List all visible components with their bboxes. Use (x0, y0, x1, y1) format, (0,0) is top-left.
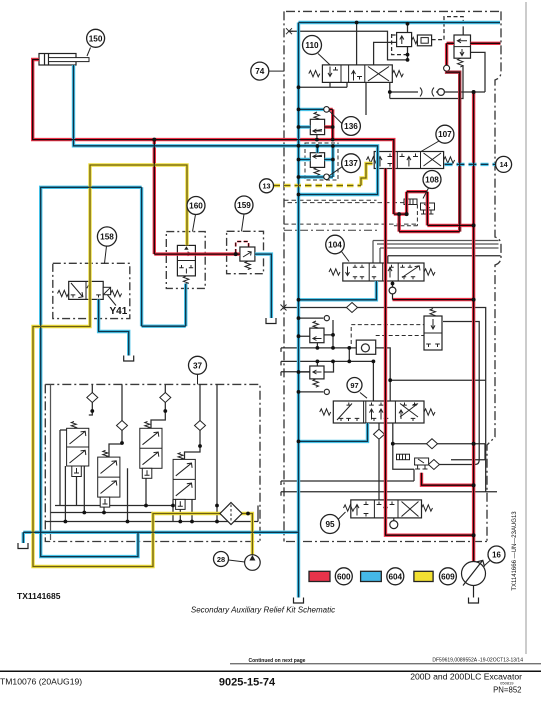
cylinder 150 (39, 54, 89, 66)
valve 158 dash-dot box (53, 263, 130, 318)
red feed valve V3 (447, 43, 501, 65)
dark red second drop from valve107 (386, 169, 474, 536)
tank below blue main (294, 598, 304, 604)
valve 158 solenoid valve (58, 281, 122, 299)
pump symbol 16 (462, 560, 486, 597)
svg-text:95: 95 (325, 520, 335, 529)
relief R2 (310, 366, 324, 387)
block37 valve C (140, 422, 162, 479)
dashed pilot line to solenoid 108a (288, 202, 405, 204)
svg-text:Continued on next page: Continued on next page (249, 658, 306, 664)
red main line cylinder to valve107 down to bottom (33, 60, 394, 215)
valve 107 (367, 152, 455, 169)
svg-text:13: 13 (263, 182, 271, 191)
pump symbol 28 (245, 555, 261, 571)
enclosure right edge upper (487, 11, 501, 541)
valve104 top wires (373, 241, 499, 264)
block37 inner rail (50, 384, 52, 540)
inner dashed boundary mid section (284, 223, 419, 225)
red dashed pilot at 159 (236, 242, 249, 254)
red feed valve160 to valve159 (154, 252, 240, 255)
orifice arcs (420, 88, 434, 97)
wire y493.5 (281, 492, 497, 496)
svg-text:159: 159 (237, 201, 251, 210)
diamonds in block37 (87, 393, 98, 403)
valve 95b pilot (415, 458, 429, 469)
orifice line y92 (390, 91, 485, 93)
valve V1 pressure reducer top right (397, 33, 423, 47)
junction dots (152, 138, 156, 142)
dashed box top right (444, 17, 463, 40)
dashed 108a drop (392, 205, 417, 226)
svg-text:110: 110 (305, 41, 319, 50)
valve 159 dash-dot box (227, 231, 264, 273)
tank below 159 (266, 318, 276, 324)
dashed rect around 136 137 (305, 143, 338, 180)
check diamond 97 bottom (374, 429, 385, 439)
svg-text:136: 136 (344, 122, 358, 131)
dark red from V3 down right side (447, 71, 460, 231)
D3 stem (185, 384, 201, 459)
yellow jog to 107 spring (361, 164, 373, 186)
inner dashed pilot boundary top section (284, 199, 377, 201)
check ball 137 (324, 174, 330, 180)
G_BORDERS (18, 17, 501, 603)
svg-text:600: 600 (337, 572, 351, 581)
svg-text:16: 16 (492, 551, 501, 560)
block37 valve B (98, 450, 120, 507)
wire y98.5 to V3 bottom (390, 66, 463, 99)
red link 108 area (394, 192, 474, 232)
wire y87 below valve110 (299, 82, 367, 115)
svg-text:TX1141685: TX1141685 (17, 591, 61, 601)
valve 136 relief (310, 112, 324, 135)
valve 137 relief (310, 153, 324, 176)
valve 104 (329, 263, 435, 281)
red stubs 136 (325, 109, 333, 139)
filter (220, 503, 242, 525)
tank below pump16 (469, 598, 479, 604)
valve110 right drop (389, 82, 391, 98)
legend swatches (309, 571, 330, 581)
section divider dash-dot (284, 229, 378, 231)
block 37 dash-dot border (45, 384, 260, 541)
wire y361.4 (281, 361, 373, 401)
right margin rule (525, 2, 527, 654)
G_COLOR (39, 33, 471, 518)
dashed pilot box 97 (351, 325, 425, 344)
wire y481 (281, 481, 414, 485)
dark red branch to valve160 (153, 140, 156, 255)
block37 valve D (173, 453, 195, 510)
svg-text:TX1141666 —UN—23AUG13: TX1141666 —UN—23AUG13 (512, 511, 518, 591)
dark cores of colored lines (23, 23, 500, 598)
label circles (87, 29, 105, 47)
blue bottom rail (23, 532, 298, 598)
tank below 158 drain (124, 356, 134, 362)
G_CIRCLES (0, 306, 541, 695)
channel x217 (216, 384, 218, 521)
svg-text:107: 107 (438, 130, 452, 139)
blue 158 drain (99, 299, 129, 355)
valve 97 (320, 401, 435, 423)
wire y464.5 (414, 322, 479, 465)
svg-text:150: 150 (89, 34, 103, 43)
D2 stem (151, 384, 165, 428)
svg-text:158: 158 (100, 233, 114, 242)
check diamond y464 (428, 460, 439, 470)
97 bottom check (378, 423, 380, 500)
pilot line top with x-mark (289, 31, 408, 60)
svg-text:97: 97 (350, 381, 358, 390)
pilot check box (356, 340, 375, 354)
enclosure top edge (286, 10, 501, 12)
red link below valve104 (393, 298, 474, 301)
valve104 bottom check stem (392, 281, 394, 287)
enclosure bottom edge (286, 541, 487, 543)
R2 relief wires (299, 361, 334, 392)
svg-text:137: 137 (344, 159, 358, 168)
component V2 orifice block (417, 35, 431, 46)
dashed link V2 to box (432, 39, 444, 41)
136 bottom stem (316, 135, 318, 140)
valve 159 relief (240, 247, 255, 270)
valve110 left feed (374, 42, 397, 65)
check ball on red (444, 65, 450, 71)
svg-text:28: 28 (217, 555, 225, 564)
node V1 stem (407, 24, 409, 60)
tank bottom left (18, 543, 28, 549)
svg-text:TM10076 (20AUG19): TM10076 (20AUG19) (0, 677, 82, 687)
blue stub to ball 136 (299, 108, 324, 111)
callout lines (87, 48, 490, 566)
orifice circle (438, 89, 445, 96)
D1 stem (60, 384, 92, 505)
dashed pilot V1 (392, 34, 408, 55)
yellow dashed line 13 (274, 184, 362, 187)
relief R1 (310, 321, 324, 343)
blue stubs 137 (316, 146, 319, 153)
V3 top stem (462, 30, 464, 35)
long wire y307 with x-mark (283, 308, 486, 492)
valve 160 dash-dot box (166, 232, 205, 289)
valve 160 (177, 245, 195, 283)
blue top rail (299, 21, 501, 24)
svg-text:604: 604 (388, 572, 402, 581)
solenoid 95a (397, 454, 410, 460)
check line y443.7 (393, 423, 485, 481)
blue main vertical (297, 23, 300, 532)
wire y347.9 (281, 348, 390, 401)
valve drops to buses (65, 466, 192, 522)
svg-text:PN=852: PN=852 (493, 686, 521, 695)
svg-text:37: 37 (193, 361, 203, 370)
blue cylinder line to valve107 (74, 65, 378, 195)
enclosure left edge (283, 11, 285, 541)
blue return loop left (41, 187, 142, 556)
valve110 center stem (356, 23, 358, 65)
svg-text:Y41: Y41 (110, 306, 128, 317)
dark red main right vertical to pump (472, 92, 475, 561)
check ball 136 (324, 107, 330, 113)
wire y371.7 (281, 372, 310, 376)
valve 108b pilot relief (421, 203, 435, 214)
svg-text:160: 160 (189, 202, 203, 211)
wire V3 right loop (471, 52, 486, 92)
svg-text:9025-15-74: 9025-15-74 (219, 677, 276, 689)
svg-text:74: 74 (255, 67, 265, 76)
yellow pilot network (33, 165, 252, 567)
svg-text:609: 609 (441, 572, 455, 581)
footer rules (230, 663, 541, 665)
block37 valve A (67, 422, 89, 477)
95 bottom ball (393, 518, 395, 521)
main valve enclosure dash-dot border (284, 11, 501, 541)
valve 95 (344, 500, 433, 518)
svg-text:104: 104 (328, 241, 342, 250)
svg-text:108: 108 (425, 176, 439, 185)
red link 95 pilot (422, 473, 474, 485)
valve 110 (309, 65, 404, 83)
interconnect stubs (317, 343, 349, 366)
svg-text:DF59619,0089552A -19-02OCT13-1: DF59619,0089552A -19-02OCT13-13/14 (432, 658, 523, 664)
check diamond y307 (347, 303, 358, 313)
R1 relief wires (299, 318, 334, 348)
solenoid 108a (404, 199, 417, 205)
buses (45, 506, 258, 522)
svg-text:14: 14 (500, 160, 508, 169)
blue stub 136 left port (299, 125, 311, 128)
blue branch to valve104 (299, 281, 377, 300)
valve V3 reducing valve (454, 35, 471, 67)
blue dashed port 14 (445, 163, 496, 166)
D4 stem (109, 384, 122, 457)
G_DOTS (87, 29, 512, 585)
blue 159 drain (255, 254, 272, 318)
svg-text:Secondary Auxiliary Relief Kit: Secondary Auxiliary Relief Kit Schematic (191, 606, 335, 615)
valve V4 (424, 309, 442, 351)
